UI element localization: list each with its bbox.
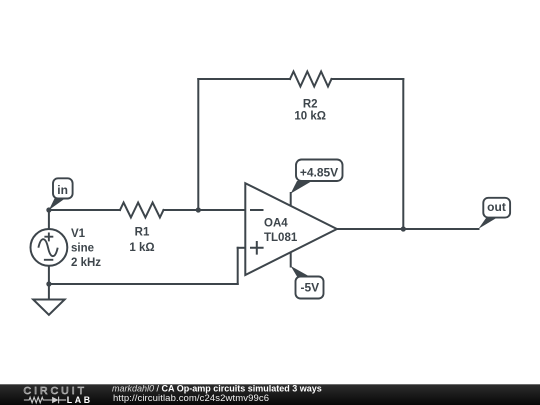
wire input right segment to op-amp minus xyxy=(164,209,246,211)
svg-text:in: in xyxy=(57,183,68,197)
wire bottom horizontal xyxy=(49,283,238,285)
wire feedback top-left segment xyxy=(198,78,290,80)
node in callout pointer xyxy=(49,199,65,211)
svg-text:R2: R2 xyxy=(303,98,318,110)
wire feedback top-right segment xyxy=(332,78,404,80)
wire plus input vertical xyxy=(237,248,239,284)
voltage source V1 circle xyxy=(31,229,68,266)
voltage source V1 minus mark xyxy=(44,259,53,261)
junction dot at bottom node xyxy=(46,281,51,286)
wire op-amp negative supply xyxy=(290,252,292,266)
wire ground stem xyxy=(48,284,50,300)
svg-text:V1: V1 xyxy=(71,228,86,240)
node in callout box xyxy=(53,178,73,198)
op-amp minus input mark xyxy=(250,209,264,211)
voltage source V1 plus mark xyxy=(44,233,53,242)
wire V1 top xyxy=(48,210,50,229)
op-amp OA4 labels xyxy=(264,217,298,244)
wire input left segment xyxy=(49,209,120,211)
wire feedback right vertical xyxy=(402,79,404,229)
resistor R1 zigzag xyxy=(120,203,164,218)
svg-text:+4.85V: +4.85V xyxy=(300,165,338,179)
footer bar xyxy=(0,384,540,405)
svg-text:-5V: -5V xyxy=(300,281,319,295)
node +4.85V callout pointer xyxy=(291,181,312,194)
svg-text:R1: R1 xyxy=(135,227,150,239)
wire plus input horizontal xyxy=(238,247,246,249)
ground symbol xyxy=(33,300,64,315)
logo resistor-diode squiggle xyxy=(24,397,66,404)
wire V1 bottom xyxy=(48,266,50,284)
svg-text:OA4: OA4 xyxy=(264,217,288,229)
wire output xyxy=(337,228,479,230)
svg-text:out: out xyxy=(487,200,506,214)
svg-text:markdahl0 / CA Op-amp circuits: markdahl0 / CA Op-amp circuits simulated… xyxy=(112,383,322,393)
svg-text:1 kΩ: 1 kΩ xyxy=(129,242,154,254)
voltage source V1 sine mark xyxy=(38,239,57,256)
node -5V callout box xyxy=(296,277,324,299)
junction dot at inverting input node xyxy=(196,207,201,212)
op-amp plus input mark xyxy=(250,241,264,255)
node out callout box xyxy=(483,198,510,218)
svg-text:sine: sine xyxy=(71,243,94,255)
resistor R1 labels xyxy=(129,227,154,254)
svg-text:TL081: TL081 xyxy=(264,232,298,244)
junction dot at input node xyxy=(46,207,51,212)
node -5V callout pointer xyxy=(291,266,310,277)
svg-text:2 kHz: 2 kHz xyxy=(71,257,101,269)
wire feedback left vertical xyxy=(197,79,199,210)
resistor R2 labels xyxy=(294,98,326,122)
resistor R2 zigzag xyxy=(290,72,332,87)
op-amp OA4 triangle xyxy=(245,183,337,275)
svg-text:http://circuitlab.com/c24s2wtm: http://circuitlab.com/c24s2wtmv99c6 xyxy=(113,393,269,404)
node +4.85V callout box xyxy=(296,160,343,182)
svg-text:10 kΩ: 10 kΩ xyxy=(294,110,326,122)
logo diode triangle xyxy=(52,397,59,404)
node out callout pointer xyxy=(479,218,498,229)
wire op-amp positive supply xyxy=(290,193,292,206)
svg-text:LAB: LAB xyxy=(67,395,93,405)
voltage source V1 labels xyxy=(71,228,101,269)
junction dot at output node xyxy=(401,226,406,231)
